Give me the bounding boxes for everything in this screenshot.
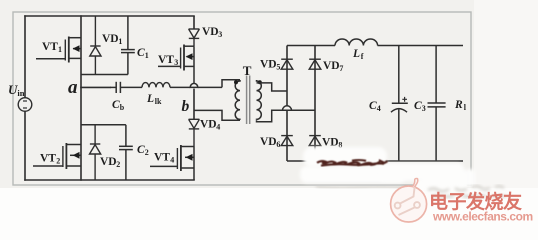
capacitor C1 bbox=[121, 16, 135, 75]
svg-text:VD: VD bbox=[100, 156, 117, 168]
border frame bbox=[13, 12, 471, 185]
svg-text:VD: VD bbox=[102, 33, 119, 45]
source Uin bbox=[18, 98, 32, 112]
wire bottom rail bbox=[25, 179, 194, 181]
transistor VT4 bbox=[150, 145, 194, 180]
diode VD2 bbox=[90, 125, 101, 180]
svg-text:C: C bbox=[414, 100, 422, 112]
svg-text:VT: VT bbox=[42, 41, 58, 53]
wire left input vertical bbox=[24, 16, 26, 180]
diode VD6 bbox=[281, 136, 293, 146]
primary bottom lead bbox=[194, 110, 240, 120]
svg-text:6: 6 bbox=[276, 140, 280, 149]
svg-text:VD: VD bbox=[260, 136, 277, 148]
secondary dot bbox=[258, 80, 262, 84]
wire bridge right leg bbox=[314, 46, 316, 162]
transistor VT2 bbox=[33, 143, 81, 169]
primary dot bbox=[234, 80, 238, 84]
inductor Lf bbox=[335, 39, 378, 46]
svg-text:C: C bbox=[369, 100, 377, 112]
logo tab stem bbox=[413, 178, 418, 187]
transformer core bbox=[247, 76, 250, 125]
svg-text:b: b bbox=[182, 98, 190, 115]
capacitor Cb bbox=[116, 82, 142, 93]
transformer T primary winding bbox=[235, 80, 240, 120]
svg-text:L: L bbox=[146, 93, 154, 105]
svg-text:VD: VD bbox=[322, 137, 339, 149]
svg-text:lk: lk bbox=[155, 97, 162, 106]
svg-text:www.elecfans.com: www.elecfans.com bbox=[432, 210, 533, 224]
diode VD1 bbox=[90, 16, 101, 75]
faint pencil mark below wire bbox=[316, 187, 407, 189]
svg-text:1: 1 bbox=[58, 45, 62, 54]
wire a to Cb bbox=[110, 86, 116, 88]
svg-text:1: 1 bbox=[145, 51, 149, 60]
transistor VT3 bbox=[158, 45, 194, 84]
svg-text:a: a bbox=[68, 77, 78, 98]
svg-text:VD: VD bbox=[323, 60, 340, 72]
svg-text:4: 4 bbox=[216, 123, 220, 132]
diode VD4 bbox=[189, 119, 200, 146]
svg-text:4: 4 bbox=[170, 156, 174, 165]
wire Llk to primary with hop over leg2 bbox=[170, 80, 240, 88]
diode VD5 bbox=[281, 59, 293, 69]
svg-text:3: 3 bbox=[422, 104, 426, 113]
diode VD7 bbox=[309, 59, 321, 69]
svg-text:C: C bbox=[112, 99, 120, 111]
node a junction bbox=[81, 86, 110, 88]
faint ghost handwriting right bbox=[428, 186, 506, 197]
secondary bottom lead with hop over left bridge leg bbox=[257, 106, 316, 122]
svg-text:VT: VT bbox=[154, 152, 170, 164]
secondary top lead bbox=[257, 83, 288, 91]
transistor VT1 bbox=[36, 37, 81, 63]
logo pads bbox=[395, 203, 401, 209]
transistor leg2 vertical top bbox=[193, 16, 195, 29]
capacitor C4 electrolytic bbox=[391, 46, 408, 162]
scribble strike-through annotation bbox=[317, 160, 388, 166]
svg-text:R: R bbox=[454, 99, 463, 111]
wire leg2 mid (behind hop) bbox=[193, 89, 195, 120]
svg-text:L: L bbox=[352, 48, 360, 60]
diode VD3 bbox=[189, 29, 200, 46]
wire top rail bbox=[25, 15, 194, 17]
wire cell1 bottom bbox=[81, 74, 128, 76]
wire output top bbox=[287, 45, 463, 47]
svg-text:1: 1 bbox=[118, 37, 122, 46]
svg-text:f: f bbox=[361, 52, 364, 61]
svg-text:C: C bbox=[137, 47, 145, 59]
svg-text:C: C bbox=[137, 144, 145, 156]
svg-text:b: b bbox=[120, 103, 125, 112]
wire cell2 top bbox=[81, 124, 126, 126]
svg-text:2: 2 bbox=[145, 148, 149, 157]
svg-text:4: 4 bbox=[377, 104, 381, 113]
transformer T secondary winding bbox=[257, 80, 262, 120]
svg-text:VD: VD bbox=[200, 119, 217, 131]
svg-text:VT: VT bbox=[158, 54, 174, 66]
wire bridge left leg bbox=[286, 46, 288, 162]
svg-text:2: 2 bbox=[56, 157, 60, 166]
inductor Llk bbox=[142, 83, 170, 88]
svg-text:VT: VT bbox=[40, 153, 56, 165]
capacitor C2 bbox=[119, 125, 133, 180]
svg-text:3: 3 bbox=[174, 58, 178, 67]
wire leg1 vertical bbox=[80, 16, 82, 180]
svg-text:5: 5 bbox=[276, 63, 280, 72]
capacitor C3 bbox=[428, 46, 446, 162]
svg-text:3: 3 bbox=[218, 30, 222, 39]
svg-text:in: in bbox=[17, 88, 24, 98]
svg-text:VD: VD bbox=[260, 59, 277, 71]
svg-text:2: 2 bbox=[116, 160, 120, 169]
wire output bottom bbox=[287, 160, 463, 162]
logo trace lines bbox=[399, 187, 415, 215]
diode VD8 bbox=[309, 136, 321, 146]
watermark logo disc bbox=[391, 178, 427, 222]
white-out blob over bottom wire bbox=[300, 147, 475, 191]
svg-text:VD: VD bbox=[202, 26, 219, 38]
svg-text:7: 7 bbox=[339, 64, 343, 73]
plus sign C4 bbox=[402, 97, 407, 102]
